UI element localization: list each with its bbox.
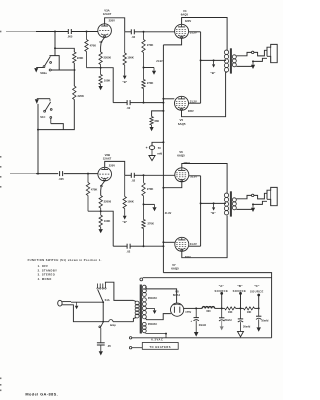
jack J1 tip arm: [254, 50, 267, 56]
wire to V4 grid: [144, 31, 175, 33]
node S1A wiper: [102, 301, 104, 303]
label 305V V7: [185, 256, 191, 259]
note item 1: [38, 264, 49, 268]
resistor 100K (bottom, to ground): [99, 211, 110, 229]
B tap arrow (top): [212, 60, 215, 67]
svg-text:21.9V: 21.9V: [156, 60, 163, 63]
jack J1 plug body: [267, 44, 277, 62]
svg-text:4. MONO: 4. MONO: [38, 277, 52, 281]
capacitor C4 .005 (bottom input): [58, 171, 64, 181]
wire between 220K resistors: [73, 63, 75, 86]
wire node C to cathode line: [144, 102, 164, 104]
node S1B branch: [54, 47, 56, 49]
arrow end of 100K line: [122, 76, 127, 84]
label B (bottom): [211, 211, 217, 215]
svg-text:30mfd: 30mfd: [243, 325, 251, 328]
svg-text:“A”: “A”: [219, 284, 225, 288]
ground stub at divider mid (top): [144, 68, 155, 71]
resistor 10K (B-C): [244, 307, 255, 314]
heater stub with node: [145, 333, 167, 338]
svg-text:220V: 220V: [109, 163, 115, 167]
svg-text:12AX7: 12AX7: [103, 12, 112, 16]
wire node C left: [130, 102, 143, 104]
wire V6 plate to OT2: [182, 164, 227, 194]
wire V3A cathode: [101, 37, 105, 52]
resistor 680 (cathode bias): [150, 117, 160, 128]
wire bottom input rail (left, faded): [10, 173, 36, 175]
wire .02 to rail drop (bottom): [113, 245, 127, 247]
svg-text:6AQ5: 6AQ5: [181, 13, 189, 17]
ground arrow 20mfd A (faded): [220, 321, 224, 330]
wire top input rail to V3A grid: [71, 31, 97, 33]
ground arrow divider mid (bottom): [152, 207, 156, 211]
svg-text:31.2V: 31.2V: [190, 174, 197, 178]
wire C drop: [258, 295, 260, 309]
svg-text:6AQ5: 6AQ5: [171, 267, 179, 271]
wire 680 stub: [152, 111, 164, 117]
wire lamp to transformer: [113, 321, 133, 323]
svg-text:SOURCE: SOURCE: [250, 289, 264, 293]
wire .02 to cathode-rail drop: [113, 102, 127, 104]
label A source: [214, 284, 228, 293]
resistor 270K (lower phase divider): [142, 68, 154, 103]
node C (V5 grid node): [143, 102, 145, 104]
label 6AQ5 V7: [171, 267, 179, 271]
resistor 470K (bottom grid): [86, 174, 97, 212]
label 6V at V3A cathode: [99, 40, 102, 44]
transformer T1 secondary HV upper: [142, 285, 146, 296]
TO HEATERS box: [142, 343, 178, 350]
node B tap stub (top): [213, 59, 215, 61]
svg-text:22000: 22000: [104, 56, 112, 60]
resistor 22000 (V3B cathode): [99, 196, 112, 212]
tube V6 6AQ5 (pentode): [175, 168, 189, 182]
heater terminal circle lower: [129, 347, 131, 349]
wire B tap to OT1 center: [201, 59, 226, 61]
label 21.9V (bottom): [165, 212, 172, 215]
svg-text:2. STANDBY: 2. STANDBY: [38, 268, 58, 272]
wire V5 grid stub: [163, 98, 174, 100]
transformer T1 heater winding: [142, 322, 146, 332]
jack J2 tip contact circle: [252, 194, 254, 196]
svg-text:.02: .02: [131, 35, 135, 39]
svg-text:“B”: “B”: [237, 284, 243, 288]
switch S1A lower contacts: [99, 323, 103, 343]
switch S1A contacts: [97, 284, 106, 290]
wire 10K to B node: [236, 307, 244, 309]
wire 10K to C node: [255, 307, 260, 309]
arrow end of 100K line (bottom): [122, 216, 127, 224]
svg-text:50: 50: [158, 146, 161, 150]
svg-text:100K: 100K: [104, 219, 110, 223]
label 21.9V (top): [156, 60, 163, 63]
node lamp wire crossing: [102, 321, 104, 323]
ground bus: [132, 337, 272, 339]
wire V5 screen: [189, 102, 201, 104]
label 12AX7 V3B: [103, 157, 112, 161]
switch S1B wiper contact wire: [51, 69, 74, 71]
svg-text:270K: 270K: [148, 222, 154, 226]
node C terminal: [257, 294, 260, 297]
wire V3B plate: [105, 161, 125, 175]
wire V3B cathode: [101, 181, 105, 196]
label 305V V6: [183, 161, 189, 165]
capacitor 20mfd (A source): [219, 308, 232, 322]
node C2 / cathode line: [162, 245, 164, 247]
switch S1C stub: [49, 99, 51, 102]
svg-text:220K: 220K: [78, 94, 84, 98]
ground arrow 10mfd: [257, 319, 261, 331]
resistor 100K (V3A plate node): [123, 32, 134, 76]
switch S1B arrow: [34, 68, 38, 72]
label C source: [250, 284, 264, 293]
B tap arrow (bottom): [212, 203, 215, 210]
switch S1C contact drop: [50, 118, 52, 123]
svg-text:.05: .05: [107, 344, 111, 348]
svg-text:“B”: “B”: [122, 220, 127, 224]
node C / cathode line: [162, 102, 164, 104]
svg-text:175V: 175V: [185, 311, 191, 314]
wire screen bus (bottom): [200, 176, 202, 246]
svg-text:350VAC: 350VAC: [148, 323, 157, 326]
chassis arrow at plug: [75, 302, 79, 309]
transformer OT1 secondary: [232, 55, 236, 67]
wire cathode rail: [87, 68, 114, 103]
wire S1A down: [102, 302, 104, 322]
wire OT1 sec bottom: [236, 65, 253, 67]
svg-text:6AQ5: 6AQ5: [177, 153, 185, 157]
svg-text:.005: .005: [67, 35, 73, 39]
node A (V4 grid node): [143, 31, 145, 33]
svg-text:21.9V: 21.9V: [165, 212, 172, 215]
node 22000 / rail: [100, 67, 102, 69]
caption Model GA-88S: [25, 391, 58, 396]
wire cathode return elbow: [163, 273, 271, 338]
node B terminal: [239, 292, 242, 295]
svg-text:6.3VAC: 6.3VAC: [151, 337, 163, 341]
node filter input: [195, 307, 197, 309]
switch S1B wiper arm: [45, 56, 51, 66]
wire V4 plate to OT1: [182, 18, 228, 51]
switch S1C wiper arm: [45, 102, 50, 111]
label B (top): [210, 71, 216, 75]
wire HV bottom to V8: [145, 314, 171, 320]
switch S1C contact circle c: [50, 117, 52, 119]
svg-text:12AX7: 12AX7: [103, 157, 112, 161]
ground arrow 680: [150, 127, 154, 131]
capacitor C3 .02 (paraphase feed): [127, 100, 131, 110]
svg-text:Model GA-88S.: Model GA-88S.: [25, 391, 58, 396]
ground arrow 50mfd: [149, 156, 155, 161]
svg-text:S1A: S1A: [105, 298, 110, 302]
wire HV top to V8: [145, 287, 176, 304]
svg-text:10mfd: 10mfd: [261, 320, 269, 323]
svg-text:220K: 220K: [77, 56, 83, 60]
label 31.2V V5: [190, 99, 197, 103]
svg-text:470K: 470K: [91, 188, 97, 192]
svg-text:31.2V: 31.2V: [190, 242, 197, 246]
label 320V: [185, 19, 191, 23]
node jack J2 sleeve: [252, 203, 254, 205]
label 6AQ5 V6: [177, 153, 185, 157]
switch S1A wiper: [98, 290, 103, 302]
resistor 100K (V3B plate node): [123, 175, 134, 216]
svg-text:22000: 22000: [104, 199, 112, 203]
label S1C: [40, 115, 45, 119]
resistor 270K (upper divider bottom): [142, 175, 154, 204]
node B source rail: [240, 307, 242, 309]
switch S1C contact circle a: [44, 110, 46, 112]
svg-text:mfd: mfd: [157, 152, 162, 156]
label 175V: [185, 311, 191, 314]
svg-text:600: 600: [206, 310, 211, 313]
label 31.2V V4 screen: [190, 31, 197, 35]
svg-text:“B”: “B”: [210, 71, 216, 75]
label 6AQ5 V4: [181, 13, 189, 17]
node junction top rail / 470K: [86, 31, 88, 33]
HV center tap arrow: [146, 308, 156, 314]
label 31.2V V7: [190, 242, 197, 246]
capacitor 10mfd (C source): [256, 308, 269, 322]
node B tap (bottom): [200, 202, 202, 204]
wire top input rail: [36, 31, 68, 33]
wire plug to S1A: [71, 301, 103, 303]
wire V7 screen: [189, 245, 201, 247]
wire S1B drop: [54, 32, 56, 56]
page edge marks: [0, 31, 1, 391]
label V3A: [104, 9, 109, 13]
ground stub divider mid (bottom): [144, 204, 155, 207]
wire 50mfd stub: [152, 142, 163, 145]
node C2 (V7 grid node): [143, 245, 145, 247]
wire 50mfd to ground: [151, 150, 153, 156]
wire screen bus (top): [200, 32, 202, 103]
svg-text:350VAC: 350VAC: [148, 297, 157, 300]
wire node C2 left: [130, 245, 143, 247]
wire to choke: [196, 307, 202, 309]
tube V3A 12AX7 (triode): [98, 24, 112, 38]
label 305V V5: [188, 110, 194, 113]
node 50mfd stub: [162, 141, 164, 143]
svg-text:FUNCTION SWITCH (S1) shown in: FUNCTION SWITCH (S1) shown in Position 1…: [28, 258, 102, 262]
label V8: [175, 290, 179, 294]
svg-text:TO HEATERS: TO HEATERS: [149, 345, 170, 349]
tube V3B 12AX7 (triode): [98, 167, 112, 181]
jack J2 sleeve wire: [253, 201, 267, 204]
label 220V at V3A plate: [109, 19, 115, 23]
note function switch title: [28, 258, 102, 262]
wire B drop: [240, 293, 242, 308]
label 12AX7: [103, 12, 112, 16]
wire choke to A node: [215, 307, 225, 309]
wire 220K chain down to S1C line: [38, 100, 74, 130]
svg-text:270K: 270K: [147, 187, 153, 191]
label 31.2V V6: [190, 174, 197, 178]
capacitor C1 .005 (top input coupling): [67, 29, 73, 39]
svg-text:680: 680: [155, 119, 160, 123]
transformer OT1 core: [230, 48, 232, 73]
heater terminal circle upper: [129, 337, 131, 339]
transformer OT2 core: [230, 191, 232, 216]
resistor 10K (A-B): [225, 307, 236, 314]
svg-text:3. STEREO: 3. STEREO: [38, 273, 56, 277]
tube V5 6AQ5 (pentode): [175, 96, 189, 110]
label V4: [183, 9, 187, 13]
jack J2 tip arm: [254, 193, 267, 199]
wire to heater box: [132, 347, 143, 349]
node 220K chain / S1B wiper wire: [74, 69, 76, 71]
wire V6 cathode: [163, 182, 181, 188]
wire branch to 220K chain: [55, 48, 74, 52]
jack J1 sleeve wire: [253, 58, 267, 61]
svg-text:320V: 320V: [185, 19, 191, 23]
capacitor 50 mfd (cathode bypass): [146, 146, 163, 156]
note item 3: [38, 273, 56, 277]
wire to V6 grid: [144, 174, 175, 176]
wire V7 to OT2 bottom: [182, 216, 227, 258]
switch S1C top wire: [37, 98, 50, 100]
svg-text:+: +: [190, 319, 192, 323]
transformer T1 core: [140, 285, 142, 334]
wire top input rail (left, faded): [6, 31, 36, 33]
resistor 270K (lower divider bottom): [142, 204, 154, 246]
capacitor 30mfd (B source): [238, 308, 251, 328]
svg-text:10K: 10K: [247, 311, 252, 314]
wire V3A plate: [105, 18, 125, 32]
transformer T1 secondary HV lower: [142, 298, 146, 319]
svg-text:20mfd: 20mfd: [199, 324, 207, 327]
svg-text:“B”: “B”: [122, 80, 127, 84]
wire S1A contact to transformer: [105, 282, 133, 300]
svg-text:S1C: S1C: [40, 115, 45, 119]
capacitor .05 line filter: [97, 343, 111, 348]
AC plug: [58, 300, 71, 306]
node V7 grid stub: [162, 241, 164, 243]
wire OT2 sec top to jack: [236, 195, 251, 198]
choke 600: [202, 307, 214, 314]
node divider mid (top): [143, 67, 145, 69]
wire V7 grid stub: [163, 241, 174, 243]
label B source: [233, 284, 247, 293]
wire A drop: [221, 293, 223, 308]
svg-text:305V: 305V: [188, 110, 194, 113]
wire V4 screen: [189, 31, 201, 33]
ground arrow jack J2: [251, 204, 255, 212]
jack J2 plug body: [267, 187, 277, 205]
svg-text:100K: 100K: [127, 56, 133, 60]
label 6CA4: [173, 293, 181, 297]
switch S1B ground-side wire: [36, 67, 43, 69]
wire B tap to OT2 center: [201, 202, 226, 204]
svg-text:.005: .005: [58, 177, 64, 181]
node bottom rail / S1C drop: [37, 173, 39, 175]
resistor 470K (top grid): [85, 32, 96, 68]
wire common cathode line: [162, 45, 164, 273]
node junction top rail / S1B: [54, 31, 56, 33]
label 6V V3B: [100, 184, 103, 188]
resistor 100K (top, to ground): [99, 68, 110, 86]
svg-text:20mfd: 20mfd: [224, 319, 232, 322]
wire heater run: [143, 277, 272, 279]
capacitor C5 .02 (bottom coupling to V6): [125, 173, 144, 183]
label 6AQ5 V5: [178, 122, 186, 126]
node V6 cathode / line: [162, 187, 164, 189]
switch S1C frame bottom: [51, 124, 64, 130]
note item 2: [38, 268, 58, 272]
lamp: [109, 320, 116, 327]
svg-text:270K: 270K: [147, 81, 153, 85]
wire V6 screen: [189, 175, 201, 177]
ground arrow divider mid (top): [152, 71, 156, 75]
wire cathode rail bottom: [88, 211, 113, 246]
ground arrow below 100K: [98, 86, 102, 90]
resistor 22000 (V3A cathode): [99, 52, 112, 68]
label 350VAC upper: [148, 297, 157, 300]
label 350VAC lower: [148, 323, 157, 326]
wire bottom rail to V3B: [64, 173, 98, 175]
ground arrow 20mfd input: [194, 321, 199, 337]
wire V4 cathode: [163, 39, 181, 45]
node divider mid (bottom): [143, 203, 145, 205]
tube V4 6AQ5 (pentode): [175, 24, 189, 38]
svg-text:1. OFF: 1. OFF: [38, 264, 49, 268]
svg-text:S1Ba: S1Ba: [40, 71, 47, 75]
svg-text:.02: .02: [127, 250, 131, 254]
wire plug low side: [71, 305, 109, 322]
node 680 stub: [162, 110, 164, 112]
wire OT2 sec bottom: [236, 208, 253, 210]
svg-text:100K: 100K: [104, 79, 110, 83]
note item 4: [38, 277, 52, 281]
node B tap stub (bottom): [213, 202, 215, 204]
switch S1C contact circle b: [50, 109, 52, 111]
tube V8 6CA4 (rectifier): [171, 303, 184, 316]
node bottom rail / 470K: [87, 173, 89, 175]
svg-text:lamp: lamp: [110, 324, 116, 327]
resistor 220K (upper, channel blend): [73, 52, 84, 63]
wire S1C down to bottom input rail: [37, 104, 39, 174]
switch S1B contact circle a: [49, 69, 51, 71]
jack J1 tip contact circle: [252, 51, 254, 53]
wire V5 to OT1 bottom: [182, 72, 228, 117]
node 22000-2 / rail: [100, 210, 102, 212]
node jack J1 sleeve: [252, 60, 254, 62]
node A2 (V6 grid node): [143, 174, 145, 176]
svg-text:100K: 100K: [127, 199, 133, 203]
label 6.3VAC: [151, 337, 163, 341]
node V5 grid stub: [162, 98, 164, 100]
resistor 270K (upper phase divider): [142, 32, 154, 68]
label V3B: [105, 153, 110, 157]
wire OT1 sec top to jack: [236, 52, 251, 55]
ground arrow line filter: [99, 345, 103, 356]
label V5: [180, 118, 184, 122]
node A terminal: [220, 292, 223, 295]
ground arrow below 100K bottom: [99, 229, 103, 233]
node B tap (top): [200, 59, 202, 61]
svg-text:6CA4: 6CA4: [173, 293, 181, 297]
svg-text:270K: 270K: [147, 43, 153, 47]
svg-text:.02: .02: [127, 106, 131, 110]
svg-text:220V: 220V: [109, 19, 115, 23]
svg-text:“C”: “C”: [254, 284, 260, 288]
svg-text:31.2V: 31.2V: [190, 31, 197, 35]
label S1Ba: [40, 71, 47, 75]
svg-text:470K: 470K: [90, 44, 96, 48]
node A source rail: [221, 307, 223, 309]
transformer T1 primary: [133, 300, 139, 321]
switch S1C arrow: [35, 99, 39, 104]
